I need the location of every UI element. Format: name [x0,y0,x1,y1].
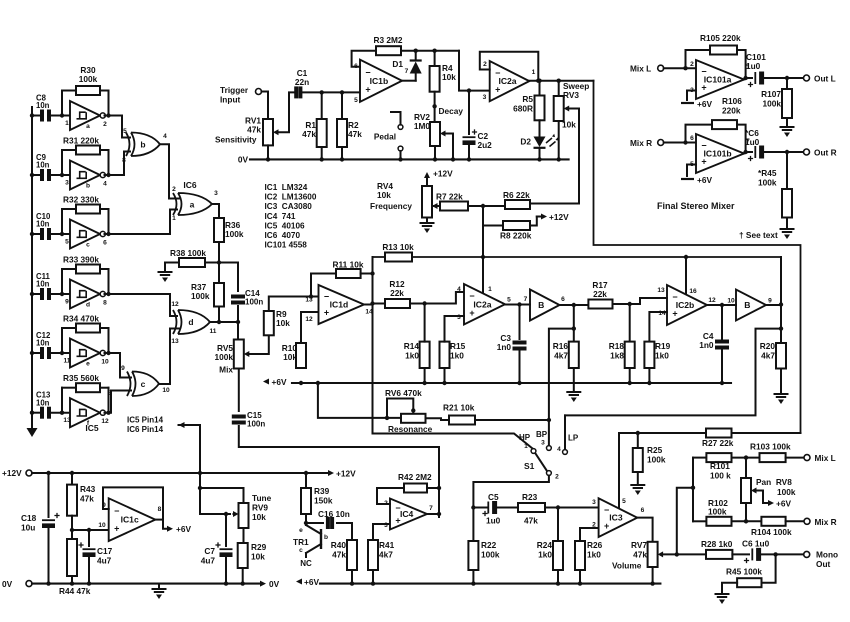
switch contact HP 1 [531,449,536,454]
potentiometer RV9 Tune 10k [239,503,249,528]
wire inverter a output to XOR b input 5 [105,116,133,138]
wire R4 top lead [434,51,436,66]
wire to R101 [693,457,706,459]
svg-text:IC1d: IC1d [330,300,349,310]
switch S1 blade [536,454,548,472]
wire RV7 bottom to rail [652,567,654,584]
label +12V arrow above RV4 [424,169,453,187]
svg-text:R35 560k: R35 560k [63,373,99,383]
op-amp IC101a [696,60,744,99]
wire to feedback resistor R34 [61,328,63,353]
svg-text:e: e [299,527,303,534]
capacitor C6 1u0 [752,548,761,561]
svg-text:R38 100k: R38 100k [170,248,206,258]
svg-text:IC1c: IC1c [121,515,139,525]
wire C4 bottom to rail [721,351,723,384]
resistor R106 220k [712,120,737,129]
svg-text:13: 13 [63,417,71,424]
wire inverter c output to XOR a input 1 [105,210,180,235]
terminal 0V [26,581,32,587]
buffer B first [530,290,560,321]
svg-text:IC5 Pin14: IC5 Pin14 [127,416,164,425]
wire trigger to RV1 [262,92,269,120]
svg-text:R27 22k: R27 22k [702,438,734,448]
svg-text:+12V: +12V [336,469,356,479]
wire RV9 to R29 [243,528,245,543]
svg-text:+: + [114,524,119,534]
wire mono feed up to mixer column [677,488,693,555]
svg-text:R3 2M2: R3 2M2 [373,35,402,45]
wire R102 to R104 [732,520,762,522]
resistor R23 47k [518,503,545,512]
capacitor C1 22n [296,86,300,98]
wire to feedback resistor R31 [61,150,63,175]
svg-text:12: 12 [708,297,716,304]
resistor R16 4k7 [569,342,579,368]
svg-text:1k0: 1k0 [405,351,419,361]
node C5 [471,505,475,509]
capacitor C5 1u0 [488,501,497,514]
wire RV2 bottom to 0V [434,146,436,159]
wiper of RV5 [244,351,250,357]
svg-text:5: 5 [65,239,69,246]
wire HP line to switch contact [373,434,533,449]
XOR gate IC6a [173,193,212,215]
svg-text:3: 3 [214,190,218,197]
svg-text:IC1 LM324: IC1 LM324 [265,183,308,192]
wire mixer left column [692,458,694,522]
svg-text:R104 100k: R104 100k [751,527,792,537]
svg-text:Mix: Mix [219,365,233,375]
svg-text:R105 220k: R105 220k [700,33,741,43]
svg-text:+6V: +6V [697,175,712,185]
svg-text:1: 1 [524,443,528,450]
wire C3 top lead [519,305,521,340]
resistor R9 10k [264,311,274,335]
wire R9 to IC1d pin 13 [269,297,319,312]
ground arrow at bottom of left rail [27,428,38,437]
svg-text:Out L: Out L [814,74,836,84]
svg-text:IC101a: IC101a [704,75,732,85]
potentiometer RV8 Pan 100k [741,478,751,503]
wire C9 to inverter input [52,174,70,176]
svg-text:RV9: RV9 [252,503,268,513]
svg-text:13: 13 [171,338,179,345]
resistor R11 10k [336,269,361,278]
wiper of RV9 [233,511,239,517]
op-amp IC4 [390,499,427,530]
wire R45 to ground [722,583,737,594]
svg-text:22k: 22k [593,289,607,299]
wire R24 to rail [557,570,559,584]
svg-text:Trigger: Trigger [220,85,249,95]
svg-text:2: 2 [555,474,559,481]
wiper of RV1 [273,129,279,135]
wire IC2a feedback loop [480,52,539,81]
capacitor C2 2u2 [463,137,476,145]
svg-text:1u0: 1u0 [486,516,501,526]
svg-text:Sensitivity: Sensitivity [215,135,257,145]
svg-text:9: 9 [65,299,69,306]
wire IC4 pin2 to R42 [377,488,404,504]
wire IC3 pin2 to R26 [580,528,599,541]
node R45 starred [785,150,789,154]
svg-text:C16 10n: C16 10n [318,509,350,519]
wire +6V bottom rail [320,583,660,585]
resistor R32 330k [76,205,100,214]
wire to feedback resistor R33 [61,269,63,294]
svg-text:R5: R5 [522,94,533,104]
wire C17 bottom to 0V [88,558,90,584]
wire R39 top lead [305,473,307,488]
wire R11 to output node [361,273,373,275]
terminal +12V [26,470,32,476]
wire Mix L to IC101a [664,67,696,69]
wire R16 top lead [573,305,575,342]
node TR1 emitter [304,521,308,525]
resistor R102 100k [706,517,731,526]
inverter IC5f [70,398,105,427]
inverter IC5b [70,161,105,190]
wire R104 to Mix R out [786,520,804,522]
wire IC101a feedback up [686,50,711,68]
wire vertical IC1d output feedback column [372,257,374,433]
resistor R24 1k0 [553,541,563,570]
resistor R45 100k starred [782,189,792,218]
wire output node to R12 [373,303,386,305]
wire switch pole to C5 [473,476,549,508]
wire R1 top [321,92,323,119]
node R107 [785,76,789,80]
capacitor C18 10u [42,520,55,528]
svg-text:Mix R: Mix R [815,517,837,527]
wire to C5 [473,507,488,509]
op-amp IC2a top [490,61,530,101]
wire C14 top lead [237,263,239,292]
svg-text:RV7: RV7 [631,540,647,550]
svg-text:3: 3 [65,180,69,187]
potentiometer RV5 100k [234,340,244,369]
capacitor C16 10n [328,517,332,529]
svg-text:R22: R22 [481,540,497,550]
svg-text:12: 12 [305,316,313,323]
svg-text:16: 16 [689,288,697,295]
wire IC1c output to +6V marker [163,520,167,529]
wire C7 bottom to 0V [225,558,227,584]
svg-text:1k8: 1k8 [610,351,624,361]
terminal Mix L out [804,455,810,461]
wire pan pot bottom lead [745,503,747,521]
svg-text:1n0: 1n0 [497,342,512,352]
svg-text:R39: R39 [314,486,330,496]
wire LP takeoff to switch [565,329,781,416]
wire RV3 bottom to 0V [558,121,560,159]
wire bias into IC2b [685,257,687,294]
wire rail to capacitor C9 [32,174,39,176]
arrow 0V rail end [260,581,266,587]
wire R107 top lead [786,78,788,89]
wire to R102 [693,520,706,522]
svg-text:+6V: +6V [304,577,319,587]
wire R39 to C16 [305,514,307,523]
ground below RV4 [421,223,434,233]
wire buffer B1 output to R17 [560,304,589,306]
wire inverter f output to XOR c input 8 [105,391,134,413]
inverter IC5d [70,280,105,309]
wire RV4 bottom [426,218,428,224]
svg-text:4k7: 4k7 [761,351,775,361]
svg-text:1u0: 1u0 [746,61,761,71]
svg-text:100n: 100n [245,298,263,307]
svg-text:IC5: IC5 [85,423,99,433]
wire Mix R to IC101b [664,142,696,144]
wire C8 to inverter input [52,115,70,117]
svg-text:+12V: +12V [549,212,569,222]
terminal Mono Out [804,551,810,557]
svg-text:150k: 150k [314,496,333,506]
wire R31 to inverter output [108,150,110,175]
wire divider to IC1c pin 10 [72,529,109,531]
svg-text:1M0: 1M0 [414,121,431,131]
XOR gate IC6c [127,372,159,397]
wire R107 to ground [786,118,788,127]
svg-text:B: B [538,300,544,310]
wire +12V rail [32,472,330,474]
resistor R18 1k8 [625,342,635,368]
svg-text:47k: 47k [80,494,94,504]
wire R33 to inverter output [108,269,110,294]
wire R14 top [424,304,426,342]
svg-text:Frequency: Frequency [370,201,412,211]
node RV6 wiper tie [385,416,389,420]
wire C14 to RV5 [237,306,239,340]
svg-text:R45 100k: R45 100k [726,567,762,577]
resistor R7 22k [440,202,468,211]
resistor R29 10k [238,543,248,568]
op-amp IC101b [696,134,744,173]
ground below R38 [159,272,172,282]
ground below R45 [716,594,729,604]
resistor R4 10k [430,66,440,92]
wire CV node down to IC2a filter bias [482,206,484,293]
wire rail to capacitor C12 [32,352,39,354]
wire buffer B2 output [766,304,781,306]
label +6V filter rail [263,377,287,387]
op-amp IC1d [319,285,365,324]
svg-text:13: 13 [305,297,313,304]
svg-text:R14: R14 [404,341,420,351]
svg-text:47k: 47k [633,550,647,560]
wire R45s to ground [786,218,788,230]
node R45 mono [773,552,777,556]
label +6V at IC101b [681,175,712,185]
wiper of RV4 [432,203,438,209]
wire R35 to inverter output [108,388,110,413]
ground below R20 [775,394,788,404]
svg-text:100k: 100k [777,487,796,497]
svg-text:4: 4 [163,133,167,140]
svg-text:IC1b: IC1b [370,76,389,86]
svg-text:47k: 47k [348,129,362,139]
wire C2 top lead [468,91,470,134]
resistor R30 100k [76,86,100,95]
svg-text:IC6 4070: IC6 4070 [265,231,301,240]
op-amp IC1b [360,60,402,102]
wire pan pot top lead [745,458,747,478]
wire R23 to IC3 pin 3 [545,507,599,509]
wire R101 to R103 [732,457,760,459]
wire RV2 wiper to 0V [444,134,453,160]
wire RV7 wiper to R28 [662,553,706,555]
svg-text:C17: C17 [97,546,113,556]
svg-text:10u: 10u [21,523,35,533]
wire pin14 line to RV9 wiper [200,513,230,515]
resistor R104 100k [761,517,785,526]
wire pin14 feed line [179,425,201,514]
ground below R107 [781,127,794,137]
wire IC4 pin3 to R41 [373,524,390,540]
wire RV6 wiper hook [387,399,413,418]
wire C12 to inverter input [52,352,70,354]
svg-text:12: 12 [171,301,179,308]
svg-text:3: 3 [541,440,545,447]
svg-text:8: 8 [108,390,112,397]
svg-text:4k7: 4k7 [554,351,568,361]
resistor R44 47k [67,539,77,576]
svg-text:R18: R18 [609,341,625,351]
wire rail to capacitor C8 [32,115,39,117]
wire bus down to buffer output node [780,257,782,343]
inverter IC5c [70,220,105,249]
svg-text:4: 4 [103,181,107,188]
svg-text:22n: 22n [295,77,309,87]
wire IC1b output to D1 [402,80,416,82]
wire R30 to inverter output [108,91,110,116]
wire C4 top lead [721,305,723,339]
capacitor C10 10n [42,228,49,240]
op-amp IC1c [109,498,156,541]
wire R43 to R44 [71,516,73,539]
svg-text:4: 4 [457,286,461,293]
wire rail to capacitor C11 [32,293,39,295]
ground below R25 [631,485,644,495]
op-amp IC2b filter [667,285,707,325]
wire to RV9 top [200,488,244,503]
resistor R38 100k [179,258,205,267]
svg-text:100k: 100k [191,291,210,301]
resistor R42 2M2 [404,484,427,493]
wire IC3 output to RV7 [637,518,652,542]
wire XOR d output and R37 to mix node [210,321,239,323]
wire +6V rail to RV6 [318,383,401,418]
label +12V arrow at R8 [530,212,569,226]
resistor R28 1k0 [706,550,732,559]
svg-text:+: + [324,308,329,318]
svg-text:a: a [190,200,195,210]
svg-text:11: 11 [210,328,217,335]
svg-text:10k: 10k [283,352,297,362]
node buffer2 output [779,302,783,306]
svg-text:D2: D2 [520,137,531,147]
ground below R16 [567,392,580,402]
svg-text:100k: 100k [481,550,500,560]
capacitor C14 100n [231,297,245,303]
label +6V at RV8 [755,491,791,509]
switch contact BP 3 [547,446,552,451]
svg-text:IC5 40106: IC5 40106 [265,221,306,230]
resistor R45 100k [737,578,761,587]
svg-text:IC2a: IC2a [498,76,516,86]
wire D1 top lead [415,51,417,60]
wire R26 to rail [579,570,581,584]
svg-text:+12V: +12V [433,169,453,179]
wire R20 to ground [780,369,782,395]
wire R3 to right [401,50,459,52]
wire C7 top lead [225,514,227,546]
resistor R39 150k [301,488,311,514]
svg-text:S1: S1 [524,461,535,471]
svg-text:R101: R101 [710,461,730,471]
terminal trigger input [256,89,262,95]
wire R10 to IC1d pin 12 [301,312,319,343]
svg-text:† See text: † See text [739,230,778,240]
jack pedal contact top [398,125,403,130]
wire R15 bottom [444,368,446,383]
wire IC2a output to sweep [529,80,593,82]
wire R14 bottom [424,368,426,383]
wire R103 to Mix L out [786,457,804,459]
resistor R3 2M2 [376,46,401,55]
svg-text:Out: Out [816,559,831,569]
svg-text:R29: R29 [251,542,267,552]
svg-text:R15: R15 [450,341,466,351]
wire IC101b pin5 to +6V [687,165,696,177]
wire R13 feedback bus [373,256,782,258]
resistor R33 390k [76,265,100,274]
svg-text:680R: 680R [513,104,533,114]
wire IC1c output [155,519,163,521]
svg-text:NC: NC [300,559,312,568]
svg-text:9: 9 [121,365,125,372]
resistor R40 47k [347,540,357,570]
svg-text:4k7: 4k7 [379,550,393,560]
svg-text:R13 10k: R13 10k [382,242,414,252]
svg-text:2u2: 2u2 [478,140,493,150]
svg-text:47k: 47k [247,125,261,135]
resistor R41 4k7 [368,540,378,570]
op-amp IC3 [599,498,638,537]
wire LP down to contact [564,415,566,449]
svg-text:R41: R41 [379,540,395,550]
svg-text:IC6: IC6 [183,180,197,190]
wire BP takeoff down to switch [549,329,574,446]
resistor R107 100k [782,89,792,118]
svg-text:b: b [86,183,90,190]
svg-text:3: 3 [384,522,388,529]
svg-text:1u0: 1u0 [745,137,760,147]
svg-text:47k: 47k [524,516,538,526]
svg-text:4: 4 [557,446,561,453]
svg-text:Final Stereo Mixer: Final Stereo Mixer [657,201,735,211]
svg-text:4u7: 4u7 [97,556,112,566]
wire R19 to IC2b pin 14 [649,312,667,342]
svg-text:6: 6 [641,507,645,514]
svg-text:9: 9 [768,298,772,305]
potentiometer RV7 47k [648,542,658,567]
svg-text:7: 7 [524,296,528,303]
wire IC1d pin13 to R11 [310,274,312,297]
wire IC4 output [427,513,439,515]
